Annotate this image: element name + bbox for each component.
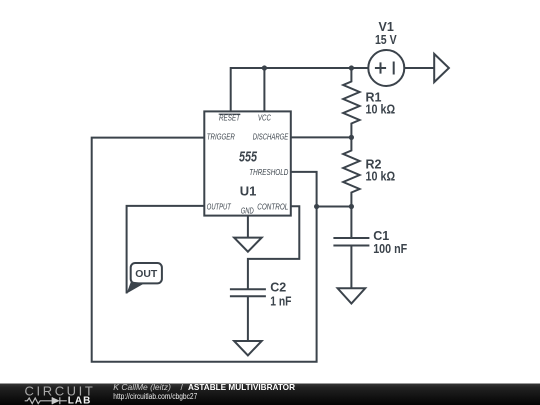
wire: RESET pin riser	[230, 67, 232, 111]
node flag OUT: bubble	[131, 263, 162, 283]
resistor R2	[343, 137, 359, 206]
wire: OUTPUT pin to OUT flag	[127, 206, 205, 294]
svg-text:VCC: VCC	[258, 112, 272, 122]
svg-text:OUTPUT: OUTPUT	[207, 202, 232, 212]
svg-text:555: 555	[239, 149, 257, 166]
voltage source V1: body circle	[368, 50, 404, 86]
svg-text:CONTROL: CONTROL	[257, 202, 288, 212]
capacitor C2	[230, 289, 266, 341]
svg-text:U1: U1	[240, 184, 257, 199]
svg-text:LAB: LAB	[68, 395, 92, 405]
voltage source V1: plus symbol	[375, 62, 386, 73]
junction: R2/C1/threshold node	[349, 204, 354, 209]
wire: V1 to node flag	[404, 67, 434, 69]
svg-text:TRIGGER: TRIGGER	[207, 132, 235, 142]
svg-text:100 nF: 100 nF	[373, 242, 407, 256]
svg-text:15 V: 15 V	[375, 33, 397, 47]
svg-text:THRESHOLD: THRESHOLD	[249, 167, 288, 177]
CircuitLab logo: schematic squiggle	[25, 397, 67, 404]
voltage source V1: minus bar	[393, 62, 395, 75]
wire: GND pin drop	[247, 216, 249, 238]
node flag OUT: tail	[127, 282, 145, 294]
junction: feedback tap on threshold column	[314, 204, 319, 209]
ground (GND pin)	[234, 238, 262, 252]
svg-text:10 kΩ: 10 kΩ	[366, 102, 396, 116]
capacitor C1	[333, 207, 369, 289]
IC U1: 555 timer body	[204, 111, 290, 215]
ground (below C2)	[234, 341, 262, 355]
node flag (arrow at V1 output)	[434, 54, 449, 82]
wire: CONTROL pin to C2	[248, 206, 299, 289]
ground (below C1)	[338, 288, 366, 303]
wire: DISCHARGE pin to R1/R2 junction	[291, 136, 352, 138]
svg-text:10 kΩ: 10 kΩ	[366, 170, 396, 184]
junction: R1 top on top rail	[349, 65, 354, 70]
pin RESET overline	[219, 113, 241, 115]
wire: VCC pin riser	[263, 67, 265, 111]
svg-text:GND: GND	[241, 207, 254, 216]
svg-text:OUT: OUT	[135, 269, 157, 280]
svg-text:DISCHARGE: DISCHARGE	[253, 132, 289, 142]
footer bar	[0, 384, 540, 405]
svg-text:V1: V1	[379, 20, 394, 34]
wire: THRESHOLD feedback loop to TRIGGER	[92, 138, 317, 362]
junction: R1/R2/DISCHARGE node	[349, 135, 354, 140]
resistor R1	[343, 68, 359, 138]
svg-text:C1: C1	[373, 229, 389, 243]
svg-text:http://circuitlab.com/cbgbc27: http://circuitlab.com/cbgbc27	[113, 391, 197, 401]
wire: top supply rail (VCC net)	[231, 67, 369, 69]
svg-text:C2: C2	[270, 280, 286, 294]
svg-text:ASTABLE MULTIVIBRATOR: ASTABLE MULTIVIBRATOR	[188, 382, 295, 392]
svg-text:1 nF: 1 nF	[270, 295, 292, 309]
wire: feedback tap to R2/C1 node	[317, 206, 352, 208]
junction: VCC riser on top rail	[262, 65, 267, 70]
